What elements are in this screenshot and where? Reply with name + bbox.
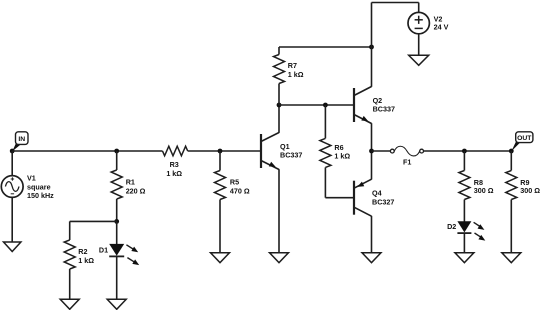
wire rail to R8	[463, 151, 465, 171]
wire rail to V2	[418, 3, 420, 13]
svg-text:D2: D2	[447, 222, 456, 231]
svg-text:BC327: BC327	[372, 198, 394, 207]
voltage source V2	[408, 12, 429, 33]
transistor Q4	[354, 179, 372, 216]
ground under Q4	[362, 253, 381, 263]
svg-text:BC337: BC337	[280, 151, 302, 160]
node R8 top	[462, 149, 467, 154]
wire R9 to ground	[510, 200, 512, 253]
wire R8 to D2	[463, 200, 465, 222]
node R1-R2-D1	[114, 219, 119, 224]
wire R6 upper	[324, 105, 326, 138]
wire Q1 collector up	[278, 105, 280, 133]
wire Q4 collector to ground	[371, 216, 373, 253]
resistor R2	[64, 240, 75, 269]
node input junction	[10, 149, 15, 154]
svg-text:Q2: Q2	[373, 96, 383, 105]
svg-text:1 kΩ: 1 kΩ	[288, 70, 304, 79]
svg-text:R7: R7	[288, 61, 297, 70]
node R6 top	[323, 103, 328, 108]
wire R2 to ground	[69, 269, 71, 299]
wire output to fuse	[372, 150, 391, 152]
wire D2 to ground	[463, 233, 465, 253]
resistor R9	[506, 171, 517, 200]
wire R7 top rail	[279, 46, 372, 48]
svg-text:300 Ω: 300 Ω	[474, 186, 494, 195]
flag OUT	[511, 132, 533, 151]
resistor R7	[274, 55, 285, 84]
svg-text:220 Ω: 220 Ω	[126, 186, 146, 195]
wire node to R2	[70, 220, 117, 222]
svg-text:R2: R2	[78, 247, 87, 256]
flag IN	[12, 132, 28, 151]
wire input rail	[12, 150, 162, 152]
transistor Q2	[354, 87, 372, 124]
wire R6 lower	[324, 167, 326, 197]
svg-text:square: square	[27, 182, 51, 191]
wire V2 to ground	[418, 34, 420, 56]
ground under D2	[455, 253, 474, 263]
ground under V2	[409, 55, 429, 65]
node R1 top	[114, 149, 119, 154]
node R5 top	[218, 149, 223, 154]
svg-text:R3: R3	[170, 160, 179, 169]
wire V1 to ground	[11, 197, 13, 242]
wire R5 to ground	[219, 200, 221, 253]
wire R1 to D1 node	[116, 199, 118, 221]
svg-text:470 Ω: 470 Ω	[230, 187, 250, 196]
wire R7 lower	[278, 84, 280, 106]
wire supply vertical	[371, 3, 373, 87]
svg-text:1 kΩ: 1 kΩ	[166, 169, 182, 178]
voltage source V1	[1, 176, 23, 198]
resistor R3	[163, 146, 188, 156]
transistor Q1	[261, 133, 279, 170]
wire rail to R5	[219, 151, 221, 171]
wire bias rail	[279, 104, 354, 106]
fuse F1	[390, 146, 423, 156]
svg-text:Q4: Q4	[372, 189, 382, 198]
svg-text:R6: R6	[334, 143, 343, 152]
ground under R2	[60, 299, 79, 309]
resistor R6	[320, 138, 331, 167]
wire Q1 emitter to ground	[278, 169, 280, 253]
svg-text:IN: IN	[18, 136, 25, 143]
LED D2	[457, 221, 485, 240]
svg-text:Q1: Q1	[280, 142, 290, 151]
ground under R9	[502, 253, 521, 263]
resistor R1	[111, 170, 122, 199]
svg-text:24 V: 24 V	[434, 23, 449, 32]
wire input junction to V1	[11, 151, 13, 176]
svg-text:V1: V1	[27, 174, 36, 183]
wire D1 to ground	[116, 256, 118, 299]
node R9 top	[509, 149, 514, 154]
svg-text:150 kHz: 150 kHz	[27, 191, 54, 200]
wire R3 to Q1 base	[188, 150, 261, 152]
resistor R5	[215, 171, 226, 200]
ground under Q1	[270, 253, 289, 263]
node R7 bottom	[277, 103, 282, 108]
svg-text:R1: R1	[126, 178, 135, 187]
ground under V1	[4, 242, 21, 252]
svg-text:300 Ω: 300 Ω	[520, 186, 540, 195]
svg-text:D1: D1	[99, 246, 108, 255]
wire down to R2	[69, 221, 71, 240]
wire fuse to output rail	[424, 150, 512, 152]
ground under R5	[211, 253, 230, 263]
svg-text:BC337: BC337	[373, 105, 395, 114]
node supply tap	[369, 45, 374, 50]
wire node to D1	[116, 221, 118, 244]
node output	[369, 149, 374, 154]
wire R7 upper	[278, 47, 280, 55]
svg-text:F1: F1	[403, 157, 411, 166]
wire R6 to Q4 base	[325, 197, 354, 199]
wire top rail	[372, 2, 419, 4]
svg-text:R5: R5	[230, 178, 239, 187]
svg-text:OUT: OUT	[517, 135, 532, 142]
wire rail to R1	[116, 151, 118, 170]
svg-text:1 kΩ: 1 kΩ	[78, 256, 94, 265]
resistor R8	[459, 171, 470, 200]
ground under D1	[107, 299, 126, 309]
LED D1	[109, 244, 139, 265]
wire Q4 emitter up	[371, 151, 373, 180]
wire Q2 emitter down	[371, 123, 373, 151]
wire rail to R9	[510, 151, 512, 171]
svg-text:1 kΩ: 1 kΩ	[334, 152, 350, 161]
